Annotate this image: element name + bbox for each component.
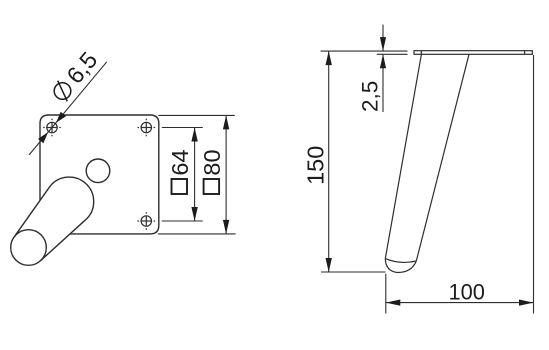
square symbol for 80 xyxy=(204,179,220,194)
dimension line 80 xyxy=(225,115,227,233)
leader arrow upper (points to hole) xyxy=(56,112,66,123)
center circle on plate xyxy=(86,159,110,183)
dimension line 100 xyxy=(386,302,534,304)
mounting plate outline xyxy=(40,115,159,234)
hole top-right with center mark xyxy=(138,119,156,137)
dimension line 64 xyxy=(194,128,196,222)
diameter symbol and 6,5 label (rotated along leader) xyxy=(47,47,102,106)
leader arrow lower (points to hole) xyxy=(38,132,48,143)
extension line plate bottom (for 80) xyxy=(158,233,236,235)
extension line right of plate (for 100) xyxy=(533,55,535,314)
svg-text:64: 64 xyxy=(167,149,193,175)
extension line at leg bottom (for 150) xyxy=(321,271,386,273)
leg (top view): tapered capsule xyxy=(14,177,94,261)
extension line plate top (for 80) xyxy=(158,114,235,116)
top plate (side profile) xyxy=(414,51,532,55)
extension line top hole (for 64) xyxy=(162,127,203,129)
dimension line 150 xyxy=(328,51,330,272)
extension line at plate bottom (for 2,5) xyxy=(377,53,408,55)
svg-text:80: 80 xyxy=(199,149,225,175)
svg-text:2,5: 2,5 xyxy=(358,81,383,112)
leg body (side view, tapered) xyxy=(385,54,469,272)
extension line left foot (for 100) xyxy=(385,274,387,314)
dimension 2,5 (plate thickness) xyxy=(382,25,384,112)
foot circle (leg bottom, full circle) xyxy=(11,230,47,266)
hole bottom-right with center mark xyxy=(138,212,156,230)
extension line at plate top (for 150 / 2,5) xyxy=(321,50,408,52)
extension line bottom hole (for 64) xyxy=(162,220,203,222)
hole top-left with center mark xyxy=(43,119,61,137)
svg-text:100: 100 xyxy=(449,280,485,305)
square symbol for 64 xyxy=(172,179,188,194)
leader line for hole diameter xyxy=(29,62,107,155)
svg-text:150: 150 xyxy=(302,146,328,185)
